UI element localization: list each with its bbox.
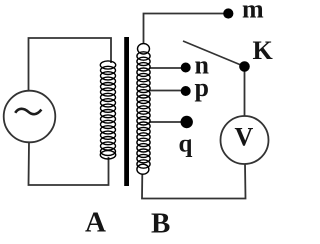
svg-text:m: m [242, 0, 264, 24]
terminal m dot [223, 8, 233, 18]
switch blade K [183, 41, 245, 67]
svg-text:p: p [195, 73, 209, 102]
svg-text:K: K [253, 36, 274, 65]
AC source tilde symbol [15, 109, 41, 114]
svg-text:B: B [151, 208, 170, 240]
wire: switch K to voltmeter [244, 67, 246, 117]
switch contact dot K [239, 61, 250, 72]
tap n dot [181, 63, 191, 73]
voltmeter V [221, 116, 269, 164]
wire: secondary top to terminal m [144, 14, 229, 45]
svg-text:q: q [179, 131, 193, 158]
primary coil A winding [100, 61, 115, 159]
wire: tap n [150, 67, 186, 69]
wire: left loop bottom (source to primary) [29, 142, 109, 185]
svg-text:A: A [85, 207, 106, 239]
tap q dot [181, 116, 193, 128]
svg-text:V: V [235, 123, 254, 152]
AC source [4, 91, 56, 143]
wire: tap q [150, 121, 187, 123]
wire: left loop top (source to primary) [29, 38, 112, 91]
secondary coil B winding [137, 44, 150, 175]
tap p dot [181, 86, 191, 96]
wire: tap p [150, 90, 186, 92]
wire: voltmeter bottom to secondary bottom [142, 164, 246, 199]
transformer core [124, 37, 129, 186]
